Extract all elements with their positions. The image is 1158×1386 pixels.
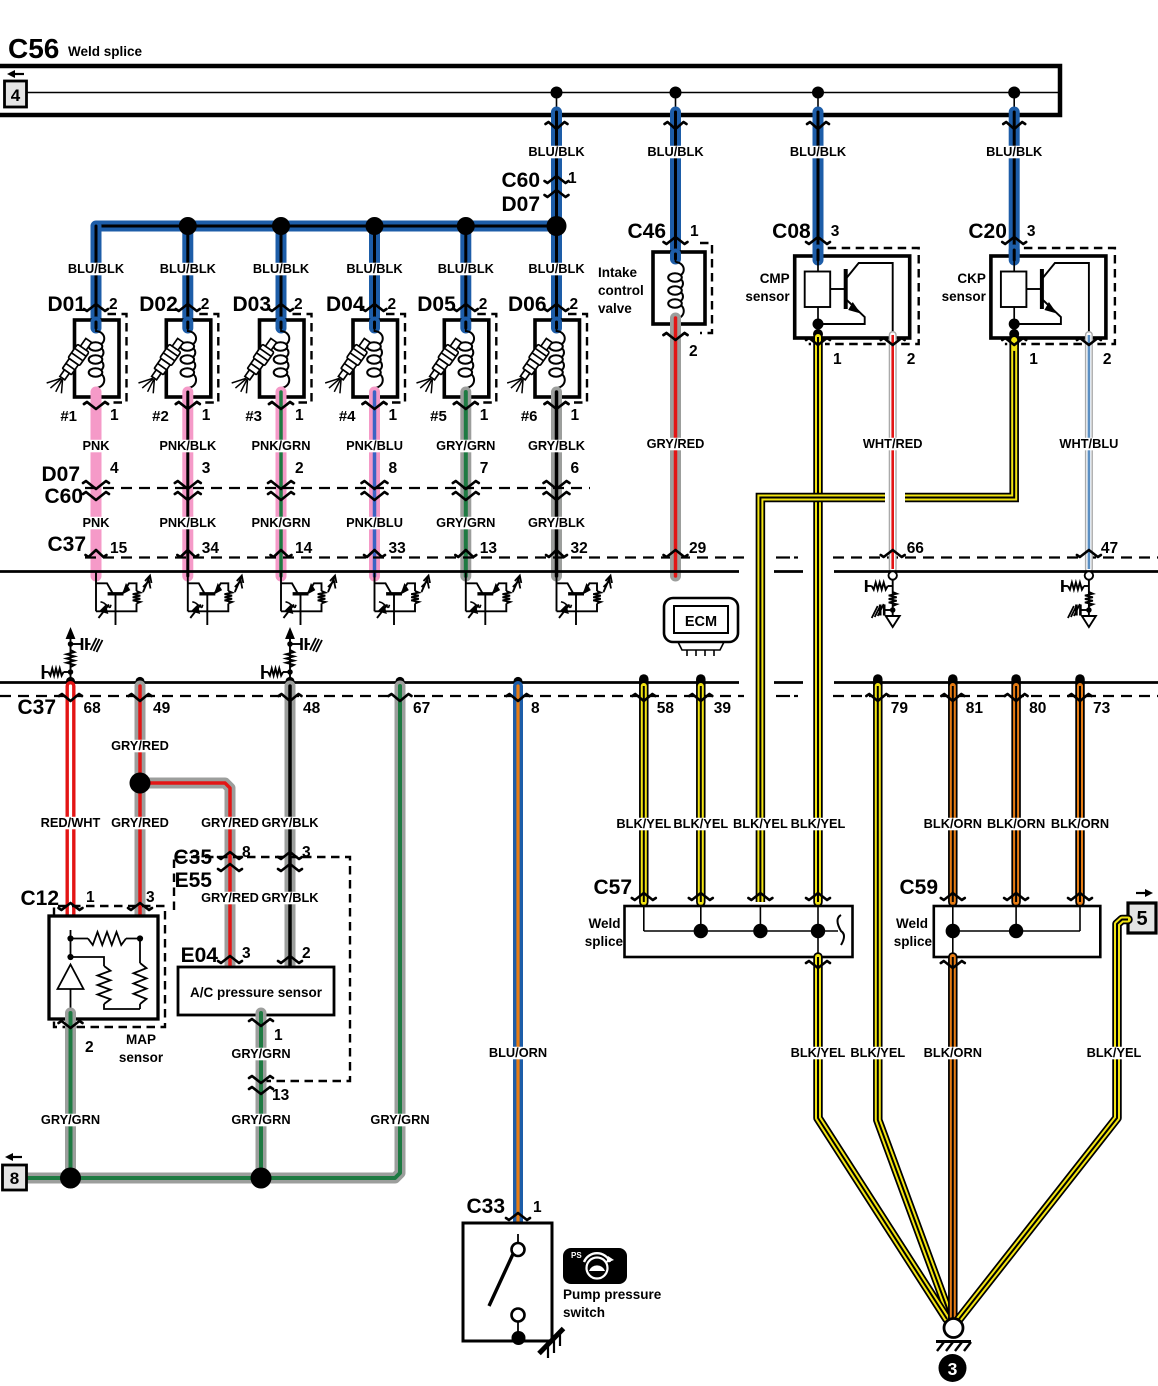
- connector box 8 (to page 8): [3, 1165, 27, 1190]
- labels/pins for injector wire PNK/BLK: [162, 440, 214, 453]
- svg-text:C60: C60: [501, 169, 540, 192]
- svg-text:GRY/RED: GRY/RED: [201, 815, 259, 830]
- svg-text:8: 8: [10, 1169, 19, 1188]
- svg-text:1: 1: [110, 407, 119, 424]
- svg-text:C37: C37: [47, 533, 86, 556]
- svg-text:PNK/GRN: PNK/GRN: [251, 438, 310, 453]
- svg-text:2: 2: [689, 343, 698, 360]
- junction on C56 bus x=818: [812, 87, 824, 99]
- junction on C56 bus x=1014.2: [1008, 87, 1020, 99]
- junction injector bus x=187.8: [179, 217, 197, 235]
- svg-text:GRY/BLK: GRY/BLK: [528, 515, 586, 530]
- svg-text:PNK/BLU: PNK/BLU: [346, 515, 403, 530]
- svg-text:15: 15: [110, 540, 128, 557]
- svg-text:1: 1: [568, 170, 577, 187]
- junction injector bus x=556.5: [548, 217, 566, 235]
- connector line D07/C60 (dashed): [85, 487, 590, 489]
- wire BLK/ORN ECM pin 81 to C59: [948, 679, 958, 902]
- svg-text:sensor: sensor: [942, 289, 987, 304]
- wire BLK/ORN ECM pin 80 to C59: [1011, 679, 1021, 902]
- svg-text:C20: C20: [968, 220, 1007, 243]
- svg-text:1: 1: [480, 407, 489, 424]
- svg-text:E55: E55: [175, 869, 213, 892]
- chassis ground at C33: [539, 1329, 564, 1359]
- svg-text:3: 3: [948, 1359, 958, 1379]
- wire BLU/BLK injector feed bus: [96, 221, 557, 232]
- junction on GRY/GRN rail at C12 wire: [60, 1168, 81, 1189]
- svg-text:#1: #1: [60, 408, 77, 425]
- svg-text:3: 3: [1027, 223, 1036, 240]
- svg-text:3: 3: [302, 844, 311, 861]
- svg-text:BLK/YEL: BLK/YEL: [733, 816, 788, 831]
- labels/pins for injector wire PNK: [84, 440, 108, 453]
- svg-text:67: 67: [413, 700, 430, 717]
- svg-text:valve: valve: [598, 301, 632, 316]
- wire BLK/ORN C59 output to ground 3: [948, 957, 958, 1319]
- svg-text:C12: C12: [20, 887, 59, 910]
- ECM injector driver transistor for D06: [557, 572, 613, 626]
- connector box 5 (to page 5): [1128, 903, 1156, 933]
- svg-text:BLU/BLK: BLU/BLK: [528, 144, 585, 159]
- svg-text:GRY/GRN: GRY/GRN: [370, 1112, 429, 1127]
- svg-text:GRY/RED: GRY/RED: [201, 890, 259, 905]
- label BLU/BLK injector feeds: [70, 263, 122, 276]
- ECM input circuit for pin 68 (MAP signal): [43, 630, 103, 683]
- svg-text:MAP: MAP: [126, 1032, 156, 1047]
- ECM bottom boundary line: [0, 681, 1158, 684]
- labels/pins for injector wire PNK/GRN: [255, 440, 307, 453]
- svg-text:E04: E04: [181, 944, 219, 967]
- svg-text:#2: #2: [152, 408, 169, 425]
- svg-text:1: 1: [86, 889, 95, 906]
- svg-text:sensor: sensor: [745, 289, 790, 304]
- junction on C56 bus x=675.5: [670, 87, 682, 99]
- wire BLK/YEL ECM pin 58 to C57: [639, 679, 649, 902]
- wire BLU/BLK from C56 bus to C08: [813, 112, 824, 256]
- svg-text:32: 32: [571, 540, 588, 557]
- ECM pin 80: [1005, 694, 1028, 701]
- wire BLK/YEL C57 output to ground 3: [818, 957, 947, 1319]
- svg-text:Weld: Weld: [588, 916, 620, 931]
- svg-text:D05: D05: [417, 293, 456, 316]
- wire BLK/YEL ECM pin 79 down to ground 3: [878, 679, 951, 1319]
- wire GRY/GRN from E04 pin 1 to splice rail: [256, 1013, 267, 1178]
- svg-text:1: 1: [690, 223, 699, 240]
- svg-text:BLK/YEL: BLK/YEL: [791, 1045, 846, 1060]
- svg-text:C57: C57: [593, 876, 632, 899]
- svg-text:34: 34: [202, 540, 220, 557]
- wire BLK/YEL ECM pin 39 to C57: [696, 679, 706, 902]
- svg-text:2: 2: [1103, 351, 1112, 368]
- pump pressure switch icon: [563, 1248, 627, 1284]
- svg-text:Intake: Intake: [598, 265, 638, 280]
- svg-text:PNK: PNK: [82, 438, 110, 453]
- svg-text:BLU/BLK: BLU/BLK: [253, 261, 310, 276]
- svg-text:CKP: CKP: [957, 271, 986, 286]
- svg-text:1: 1: [533, 1199, 542, 1216]
- svg-text:GRY/GRN: GRY/GRN: [436, 515, 495, 530]
- ECM pin 39: [689, 694, 712, 701]
- svg-text:C59: C59: [899, 876, 938, 899]
- svg-text:13: 13: [480, 540, 498, 557]
- svg-text:switch: switch: [563, 1305, 605, 1320]
- svg-text:GRY/RED: GRY/RED: [111, 815, 169, 830]
- svg-text:C33: C33: [466, 1195, 505, 1218]
- injector D03 (#3): [231, 293, 312, 425]
- svg-text:D01: D01: [47, 293, 86, 316]
- wire GRY/GRN from ECM pin 67 to splice rail: [395, 677, 404, 686]
- svg-text:BLK/YEL: BLK/YEL: [616, 816, 671, 831]
- svg-text:PNK/BLU: PNK/BLU: [346, 438, 403, 453]
- svg-text:C56: C56: [8, 33, 59, 64]
- svg-text:BLU/BLK: BLU/BLK: [346, 261, 403, 276]
- wire BLU/BLK feed to injector at x=556.5: [551, 226, 562, 325]
- svg-text:2: 2: [109, 296, 118, 313]
- svg-text:BLU/BLK: BLU/BLK: [647, 144, 704, 159]
- ECM pin 8: [507, 694, 530, 701]
- svg-text:BLU/BLK: BLU/BLK: [528, 261, 585, 276]
- svg-text:GRY/GRN: GRY/GRN: [231, 1112, 290, 1127]
- wire PNK/GRN from injector D03 pin 1 down to ECM: [276, 392, 287, 576]
- svg-text:RED/WHT: RED/WHT: [41, 815, 101, 830]
- svg-text:C60: C60: [44, 485, 83, 508]
- wire BLK/ORN ECM pin 73 to C59: [1075, 679, 1085, 902]
- svg-text:A/C pressure sensor: A/C pressure sensor: [190, 985, 323, 1000]
- junction injector bus x=465.8: [457, 217, 475, 235]
- injector D06 (#6): [506, 293, 587, 425]
- injector D01 (#1): [46, 293, 127, 425]
- svg-text:2: 2: [85, 1039, 94, 1056]
- wire BLU/ORN from ECM pin 8 to C33 pin 1: [513, 677, 522, 686]
- svg-text:81: 81: [966, 700, 984, 717]
- wire BLK/YEL from box 5 to ground 3: [959, 920, 1128, 1320]
- svg-text:WHT/RED: WHT/RED: [863, 436, 923, 451]
- svg-text:BLK/YEL: BLK/YEL: [850, 1045, 905, 1060]
- svg-text:BLK/YEL: BLK/YEL: [673, 816, 728, 831]
- svg-text:splice: splice: [585, 934, 624, 949]
- wire BLU/BLK from C56 bus to C60: [551, 112, 562, 218]
- svg-text:BLK/ORN: BLK/ORN: [924, 816, 982, 831]
- svg-text:GRY/GRN: GRY/GRN: [231, 1046, 290, 1061]
- ECM pin 81: [941, 694, 964, 701]
- ECM ground interface for pin 66: [866, 571, 900, 627]
- ECM injector driver transistor for D05: [466, 572, 522, 626]
- svg-text:PNK/GRN: PNK/GRN: [251, 515, 310, 530]
- wire GRY/BLK from ECM pin 48 to E04 pin 2: [285, 677, 294, 686]
- svg-text:CMP: CMP: [760, 271, 790, 286]
- svg-text:BLK/YEL: BLK/YEL: [791, 816, 846, 831]
- A/C pressure sensor E04: [174, 857, 350, 1081]
- ECM injector driver transistor for D01: [96, 572, 152, 626]
- svg-text:GRY/RED: GRY/RED: [647, 436, 705, 451]
- svg-text:80: 80: [1029, 700, 1046, 717]
- ECM injector driver transistor for D04: [375, 572, 431, 626]
- svg-text:2: 2: [302, 945, 311, 962]
- svg-text:sensor: sensor: [119, 1050, 164, 1065]
- labels/pins for injector wire GRY/GRN: [440, 440, 492, 453]
- arrow left above box 4: [13, 73, 24, 75]
- svg-text:C08: C08: [772, 220, 811, 243]
- ECM injector driver transistor for D03: [281, 572, 337, 626]
- svg-text:GRY/GRN: GRY/GRN: [41, 1112, 100, 1127]
- svg-text:GRY/BLK: GRY/BLK: [261, 815, 319, 830]
- svg-text:PNK/BLK: PNK/BLK: [159, 438, 217, 453]
- wire GRY/GRN from C12 pin 2 to splice rail: [65, 1013, 76, 1178]
- svg-text:BLU/BLK: BLU/BLK: [438, 261, 495, 276]
- svg-text:1: 1: [274, 1027, 283, 1044]
- junction injector bus x=374.5: [366, 217, 384, 235]
- wire GRY/RED from ECM pin 49 to C12 pin 3: [135, 677, 144, 686]
- wire PNK/BLU from injector D04 pin 1 down to ECM: [369, 392, 380, 576]
- svg-text:2: 2: [295, 460, 304, 477]
- ground G3: [944, 1319, 963, 1338]
- svg-text:2: 2: [201, 296, 210, 313]
- svg-text:D04: D04: [326, 293, 365, 316]
- ECM pin 48: [279, 694, 302, 701]
- svg-text:#4: #4: [339, 408, 356, 425]
- svg-text:GRY/RED: GRY/RED: [111, 738, 169, 753]
- ECM pin 79: [866, 694, 889, 701]
- svg-text:#5: #5: [430, 408, 447, 425]
- svg-text:#3: #3: [245, 408, 262, 425]
- wire PNK/BLK from injector D02 pin 1 down to ECM: [182, 392, 193, 576]
- svg-text:2: 2: [388, 296, 397, 313]
- ECM pin 58: [632, 694, 655, 701]
- svg-text:GRY/BLK: GRY/BLK: [528, 438, 586, 453]
- svg-text:49: 49: [153, 700, 171, 717]
- wire GRY/RED branch from junction to E04 pin 3: [140, 783, 230, 970]
- wire BLU/BLK feed to injector at x=281: [276, 226, 287, 325]
- svg-text:Weld splice: Weld splice: [68, 44, 143, 59]
- svg-text:3: 3: [242, 945, 251, 962]
- wire BLU/BLK from C56 bus to C20: [1009, 112, 1020, 256]
- svg-text:33: 33: [389, 540, 407, 557]
- injector D05 (#5): [415, 293, 496, 425]
- svg-text:PNK/BLK: PNK/BLK: [159, 515, 217, 530]
- wire BLU/BLK feed to injector at x=96: [91, 226, 102, 325]
- wire BLK/YEL from C08 pin 1 down through ECM to C57: [813, 337, 823, 902]
- svg-text:48: 48: [303, 700, 321, 717]
- svg-text:D06: D06: [508, 293, 547, 316]
- svg-text:2: 2: [294, 296, 303, 313]
- svg-text:2: 2: [479, 296, 488, 313]
- weld splice C56 bus bar: [0, 66, 1060, 115]
- svg-text:13: 13: [272, 1087, 290, 1104]
- wire WHT/RED from C08 pin 2 to ECM: [889, 335, 897, 569]
- switch arm: [489, 1254, 513, 1306]
- svg-text:PNK: PNK: [82, 515, 110, 530]
- svg-text:1: 1: [1029, 351, 1038, 368]
- wire GRY/GRN from injector D05 pin 1 down to ECM: [460, 392, 471, 576]
- wire BLU/BLK feed to injector at x=465.8: [460, 226, 471, 325]
- connector line C37 row1 (dashed): [85, 556, 744, 558]
- svg-text:BLK/ORN: BLK/ORN: [1051, 816, 1109, 831]
- svg-text:Weld: Weld: [896, 916, 928, 931]
- svg-text:splice: splice: [894, 934, 933, 949]
- wire PNK from injector D01 pin 1 down to ECM: [91, 392, 102, 576]
- svg-text:73: 73: [1093, 700, 1111, 717]
- ECM input circuit for pin 48 (A/C pressure signal): [263, 630, 323, 683]
- svg-text:BLU/BLK: BLU/BLK: [790, 144, 847, 159]
- junction GRY/RED splice: [130, 773, 151, 794]
- svg-text:4: 4: [110, 460, 119, 477]
- ECM pin 68: [59, 694, 82, 701]
- svg-text:D02: D02: [139, 293, 178, 316]
- wire RED/WHT from ECM pin 68 to C12 pin 1: [66, 677, 75, 686]
- junction on C56 bus x=556.5: [551, 87, 563, 99]
- svg-text:control: control: [598, 283, 644, 298]
- svg-text:BLU/BLK: BLU/BLK: [68, 261, 125, 276]
- label BLU/BLK top wires: [530, 146, 582, 159]
- svg-text:6: 6: [571, 460, 580, 477]
- svg-text:14: 14: [295, 540, 313, 557]
- svg-text:BLU/BLK: BLU/BLK: [986, 144, 1043, 159]
- svg-text:D03: D03: [232, 293, 271, 316]
- svg-text:GRY/GRN: GRY/GRN: [436, 438, 495, 453]
- svg-text:BLU/BLK: BLU/BLK: [160, 261, 217, 276]
- svg-text:8: 8: [531, 700, 540, 717]
- svg-text:D07: D07: [41, 463, 80, 486]
- svg-text:1: 1: [202, 407, 211, 424]
- svg-text:C46: C46: [627, 220, 666, 243]
- svg-text:Pump pressure: Pump pressure: [563, 1287, 662, 1302]
- wire GRY/RED from C46 pin 2 to ECM pin 29: [670, 318, 681, 576]
- svg-text:GRY/BLK: GRY/BLK: [261, 890, 319, 905]
- svg-text:ECM: ECM: [685, 614, 717, 630]
- labels/pins for injector wire PNK/BLU: [348, 440, 400, 453]
- wire BLK/YEL from C20 pin 1, jog left, down through ECM to C57: [905, 337, 1014, 498]
- svg-text:2: 2: [907, 351, 916, 368]
- svg-text:D07: D07: [501, 193, 540, 216]
- svg-text:PS: PS: [571, 1251, 582, 1260]
- injector D02 (#2): [137, 293, 218, 425]
- wire WHT/BLU from C20 pin 2 to ECM: [1085, 335, 1093, 569]
- svg-text:1: 1: [833, 351, 842, 368]
- svg-text:39: 39: [714, 700, 732, 717]
- svg-text:BLK/ORN: BLK/ORN: [987, 816, 1045, 831]
- wire GRY/BLK from injector D06 pin 1 down to ECM: [551, 392, 562, 576]
- wire BLU/BLK from C56 bus to C46: [670, 112, 681, 252]
- ECM ground interface for pin 47: [1062, 571, 1096, 627]
- svg-text:1: 1: [295, 407, 304, 424]
- svg-text:7: 7: [480, 460, 489, 477]
- svg-text:1: 1: [389, 407, 398, 424]
- ECM injector driver transistor for D02: [188, 572, 244, 626]
- svg-text:3: 3: [202, 460, 211, 477]
- svg-text:3: 3: [146, 889, 155, 906]
- labels/pins for injector wire GRY/BLK: [530, 440, 582, 453]
- svg-text:BLK/YEL: BLK/YEL: [1087, 1045, 1142, 1060]
- ECM pin 67: [389, 694, 412, 701]
- connector 13 (E04 harness): [249, 1076, 273, 1083]
- svg-text:BLK/ORN: BLK/ORN: [924, 1045, 982, 1060]
- svg-text:WHT/BLU: WHT/BLU: [1059, 436, 1118, 451]
- svg-text:79: 79: [891, 700, 909, 717]
- ECM pin 49: [129, 694, 152, 701]
- wire BLU/BLK feed to injector at x=374.5: [369, 226, 380, 325]
- svg-text:47: 47: [1101, 540, 1118, 557]
- svg-text:29: 29: [689, 540, 707, 557]
- svg-text:8: 8: [389, 460, 398, 477]
- svg-text:#6: #6: [521, 408, 538, 425]
- ECM pin 73: [1069, 694, 1092, 701]
- junction on GRY/GRN rail at E04 wire: [251, 1168, 272, 1189]
- wire BLU/BLK feed to injector at x=187.8: [182, 226, 193, 325]
- svg-text:BLU/ORN: BLU/ORN: [489, 1045, 547, 1060]
- svg-text:1: 1: [571, 407, 580, 424]
- injector D04 (#4): [324, 293, 405, 425]
- svg-text:5: 5: [1136, 908, 1147, 930]
- svg-text:C37: C37: [17, 696, 56, 719]
- connector box 4 (to page 4): [5, 81, 27, 107]
- svg-text:3: 3: [831, 223, 840, 240]
- svg-text:68: 68: [84, 700, 102, 717]
- svg-text:58: 58: [657, 700, 675, 717]
- ECM top boundary line: [0, 570, 1158, 573]
- connector line C37 row 2 (dashed): [0, 695, 744, 697]
- junction injector bus x=281: [272, 217, 290, 235]
- svg-text:8: 8: [242, 844, 251, 861]
- ECM box label: [664, 598, 738, 642]
- svg-text:4: 4: [11, 86, 21, 105]
- svg-text:66: 66: [907, 540, 925, 557]
- label BLK/YEL pass-through wires: [734, 818, 786, 831]
- svg-text:2: 2: [570, 296, 579, 313]
